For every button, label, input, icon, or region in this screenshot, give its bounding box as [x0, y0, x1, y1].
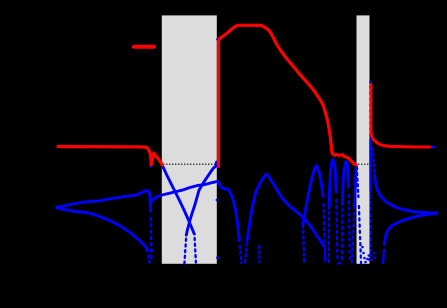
left feature upper drop dots: [150, 218, 153, 258]
arrow feature at x=259: [258, 246, 260, 258]
blue spike at band2 right edge (behind red): [369, 86, 371, 140]
spike after band 2: [371, 85, 430, 148]
F peak: [247, 174, 324, 245]
big reflectivity hump: [219, 25, 356, 166]
d arch at band 2 left edge: [352, 208, 355, 263]
L3 gently rising line through band 1: [151, 181, 240, 240]
arrow head blob: [258, 261, 261, 266]
arch b: [328, 208, 331, 262]
legend sample line: [134, 45, 154, 49]
BLUE CURVES: [58, 44, 436, 264]
e lower branch: [385, 214, 436, 245]
shaded band 2: [357, 15, 370, 263]
G rise dots column: [303, 224, 304, 261]
RED CURVE: [58, 25, 430, 166]
left flat + notch: [58, 147, 163, 166]
F rise dots: [245, 241, 247, 263]
curve 2: rises through band 1 to hidden spike: [184, 235, 186, 264]
marker tips and stray dots: [55, 39, 438, 264]
left feature upper branch: [58, 191, 151, 212]
small blue dash at right end of red line: [430, 146, 434, 149]
left feature lower branch: [58, 208, 148, 251]
dotted horizontal reference line: [55, 163, 437, 165]
curve 1: descends through band 1: [162, 164, 195, 235]
bottom dots between b and c: [338, 262, 341, 265]
shaded band 1: [162, 15, 217, 263]
hidden blue spike at band1 right edge (mostly behind red): [217, 44, 219, 158]
e upper branch after band 2: [373, 148, 375, 175]
arch c: [341, 203, 344, 259]
G peak: [303, 166, 323, 224]
